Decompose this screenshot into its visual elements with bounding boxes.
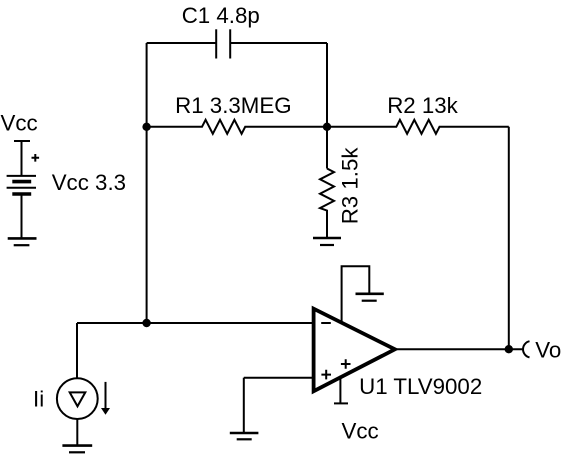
svg-text:U1 TLV9002: U1 TLV9002 (359, 374, 482, 399)
svg-text:R1 3.3MEG: R1 3.3MEG (175, 93, 291, 118)
svg-text:Vcc: Vcc (1, 110, 38, 135)
svg-text:C1 4.8p: C1 4.8p (182, 3, 260, 28)
svg-text:Vo: Vo (535, 338, 561, 363)
svg-text:Vcc 3.3: Vcc 3.3 (52, 170, 126, 195)
svg-text:R3 1.5k: R3 1.5k (338, 147, 363, 225)
svg-text:R2 13k: R2 13k (387, 93, 458, 118)
svg-text:Ii: Ii (33, 387, 44, 412)
svg-text:Vcc: Vcc (342, 419, 379, 444)
